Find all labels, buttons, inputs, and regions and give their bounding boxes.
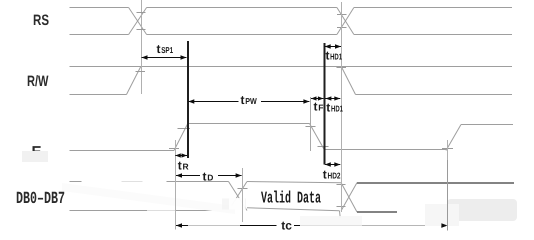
R/W waveform <box>70 67 513 95</box>
tick mark on DB crossing X1 <box>238 188 248 190</box>
svg-text:HD1: HD1 <box>331 104 343 114</box>
dimension tHD1 lower arrow <box>325 96 340 100</box>
label tHD1 lower <box>326 101 343 115</box>
label tR <box>178 159 189 173</box>
RS crossing X2 <box>337 8 354 35</box>
wire E low rail left <box>70 150 175 152</box>
svg-text:RS: RS <box>33 12 49 29</box>
tick marks on DB crossing X2 <box>337 185 346 207</box>
label tHD1 upper <box>326 49 343 63</box>
wire RS high rail segment 3 <box>354 7 512 9</box>
E rising edge 1 <box>174 124 188 151</box>
reference line V6 at data valid <box>242 168 244 222</box>
wire DB dark bottom rail after hold <box>357 211 397 213</box>
wire E high rail 1 <box>188 123 310 125</box>
E rising edge 2 <box>446 125 461 151</box>
dimension tC arrow <box>176 223 447 227</box>
wire DB top rail left <box>70 181 229 183</box>
reference line V8 redrawn over blob <box>447 160 449 231</box>
svg-text:R/W: R/W <box>27 73 49 90</box>
watermark smear over DB top rail mid <box>122 177 143 186</box>
dimension tSP1 arrow <box>142 55 187 59</box>
watermark blob at DB crossing X1 <box>222 199 246 210</box>
DB crossing X1 <box>229 182 248 211</box>
reference line V1 at RS/RW setup <box>141 0 143 94</box>
label tD <box>203 170 214 184</box>
tick marks on RS crossing X1 <box>137 13 146 30</box>
reference line V7 at E rise start <box>175 140 177 230</box>
watermark smear over DB bottom rail <box>147 206 176 216</box>
watermark gray blob right <box>397 205 453 218</box>
RS waveform dual rails with crossings <box>70 8 513 35</box>
wire RS low rail segment 3 <box>354 34 512 36</box>
watermark smear over E signal label <box>22 151 48 162</box>
svg-text:Valid Data: Valid Data <box>261 188 321 207</box>
svg-text:D: D <box>207 173 213 183</box>
watermark smear over DB top rail left <box>82 177 122 186</box>
tick marks on E rising edge 1 <box>169 129 190 149</box>
tick mark on R/W rising edge <box>136 71 146 73</box>
tick mark on E rising edge 2 <box>442 148 453 150</box>
reference line V5 at hold boundary <box>341 2 343 212</box>
svg-text:SP1: SP1 <box>161 45 173 55</box>
dimension tF arrow <box>311 96 323 100</box>
wire DB bottom rail valid section <box>247 208 340 211</box>
svg-text:t: t <box>178 159 182 173</box>
wire DB top rail valid section <box>247 182 341 183</box>
wire R/W low rail right <box>356 94 513 96</box>
svg-text:R: R <box>183 162 189 172</box>
wire RS low rail segment 1 <box>70 34 129 36</box>
tC right arrowhead over blob <box>441 223 447 227</box>
R/W rising edge <box>127 67 141 95</box>
tick marks on RS crossing X2 <box>337 15 347 28</box>
dimension tD arrow <box>176 173 242 177</box>
E falling edge <box>310 124 325 150</box>
DB0-DB7 bus waveform <box>70 182 358 218</box>
wire DB dark top rail after hold <box>357 182 514 184</box>
reference line V8 at cycle end <box>447 140 449 231</box>
wire R/W high rail <box>70 66 513 68</box>
tick marks on E falling edge <box>306 127 329 147</box>
tick mark on R/W falling fork <box>337 67 347 69</box>
label tHD2 <box>323 168 341 182</box>
wire RS high rail segment 1 <box>70 7 129 9</box>
svg-text:t: t <box>203 170 207 184</box>
DB crossing X2 <box>341 183 357 212</box>
svg-text:HD2: HD2 <box>328 171 341 181</box>
RS crossing X1 <box>129 8 147 35</box>
label tSP1 <box>157 42 174 56</box>
svg-text:HD1: HD1 <box>330 52 342 62</box>
svg-text:t: t <box>314 100 318 114</box>
reference line V3 at E fall start <box>310 97 312 151</box>
dimension tHD2 arrow <box>325 162 341 166</box>
label tF <box>314 100 324 114</box>
wire RS high rail segment 2 <box>147 7 337 9</box>
watermark smear bottom left streaks <box>188 220 240 231</box>
svg-text:t: t <box>326 101 330 115</box>
reference line V2 thick at E rise (black) <box>187 41 189 158</box>
svg-text:F: F <box>318 103 323 113</box>
svg-text:PW: PW <box>245 96 257 106</box>
wire RS low rail segment 2 <box>147 34 337 36</box>
wire R/W low rail left <box>70 94 127 96</box>
dimension tPW arrow <box>188 99 309 103</box>
dimension tR arrow <box>175 153 187 157</box>
wire E low rail middle <box>324 149 446 151</box>
svg-text:t: t <box>326 49 330 63</box>
svg-text:tc: tc <box>281 219 292 233</box>
watermark smear band over DB bus left <box>62 183 235 214</box>
dimension tHD1 upper arrow <box>325 44 341 48</box>
wire E high rail 2 <box>461 124 513 126</box>
label tPW <box>241 93 258 107</box>
R/W falling fork edge <box>342 67 356 95</box>
svg-text:DB0–DB7: DB0–DB7 <box>16 190 65 209</box>
E waveform <box>70 124 514 151</box>
wire DB bottom rail left <box>70 210 229 212</box>
reference line V4 thick at E fall end (black) <box>324 43 326 165</box>
svg-text:t: t <box>241 93 245 107</box>
svg-text:t: t <box>323 168 327 182</box>
DB valid end stub <box>339 211 342 218</box>
svg-text:t: t <box>157 42 161 56</box>
